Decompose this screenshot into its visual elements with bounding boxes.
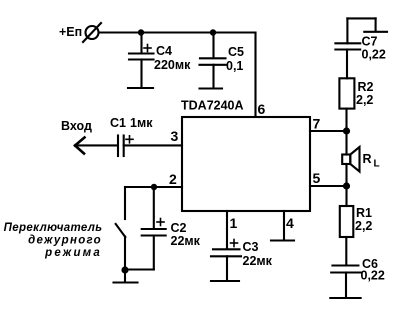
svg-text:C2: C2 [171, 221, 187, 235]
wire pin 3 [124, 144, 182, 146]
node switch/C2 bottom junction [121, 266, 128, 273]
svg-text:0,22: 0,22 [362, 48, 386, 62]
wire top supply rail [99, 31, 256, 33]
wire C2 bottom to switch junction [125, 268, 154, 270]
node pin5 / R1 / speaker junction [343, 182, 350, 189]
svg-text:3: 3 [171, 128, 179, 144]
svg-text:4: 4 [286, 215, 294, 231]
ground (C3) [211, 280, 239, 282]
svg-text:2: 2 [169, 171, 177, 187]
ground (C5) [200, 87, 223, 89]
IC U1 TDA7240A [181, 99, 310, 212]
capacitor C2 22мк [142, 187, 201, 270]
capacitor C7 0,22 [335, 18, 385, 61]
ground (switch) [114, 270, 138, 283]
svg-text:дежурного: дежурного [28, 235, 102, 247]
switch SA1 (standby) [116, 187, 126, 270]
wire speaker to pin5 junction [345, 164, 347, 186]
terminal X1 (+Еп) [83, 23, 101, 42]
capacitor C6 0,22 [331, 257, 385, 297]
svg-text:режима: режима [44, 247, 102, 259]
svg-text:R2: R2 [358, 80, 374, 94]
node junction rail/C5 [210, 29, 216, 35]
node pin2 / C2 / switch junction [151, 184, 157, 190]
resistor R1 2,2 [340, 206, 373, 237]
wire pin 1 [226, 211, 228, 249]
svg-text:Вход: Вход [61, 119, 92, 133]
capacitor C4 220мк [129, 33, 191, 88]
ground (C4) [128, 87, 153, 89]
svg-text:0,1: 0,1 [226, 59, 243, 73]
svg-text:L: L [374, 159, 380, 170]
capacitor C3 22мк [211, 240, 273, 281]
node junction rail/C4 [138, 29, 144, 35]
svg-text:1: 1 [230, 215, 238, 231]
wire pin 5 [310, 185, 347, 187]
wire pin 2 [125, 186, 182, 188]
svg-text:6: 6 [258, 101, 266, 117]
svg-text:2,2: 2,2 [356, 93, 373, 107]
svg-text:2,2: 2,2 [355, 219, 372, 233]
svg-text:TDA7240A: TDA7240A [181, 99, 244, 113]
speaker RL [342, 147, 379, 172]
svg-text:220мк: 220мк [154, 58, 191, 72]
wire pin 4 [283, 211, 285, 240]
svg-text:5: 5 [313, 170, 321, 186]
wire junction to R1 [345, 186, 347, 206]
svg-text:R: R [363, 152, 372, 166]
svg-text:C5: C5 [228, 45, 244, 59]
ground (pin 4) [271, 239, 294, 241]
svg-text:C3: C3 [243, 240, 259, 254]
wire R1 to C6 [345, 237, 347, 265]
svg-text:C4: C4 [156, 44, 172, 58]
svg-text:C1: C1 [110, 116, 126, 130]
wire pin 6 [254, 33, 256, 118]
capacitor C5 0,1 [200, 33, 245, 88]
svg-text:1мк: 1мк [130, 116, 153, 130]
svg-text:+Еп: +Еп [59, 25, 82, 39]
wire R2 to C7 [346, 50, 348, 79]
wire junction to R2 [345, 109, 347, 131]
wire junction to speaker [345, 131, 347, 155]
svg-text:22мк: 22мк [243, 254, 273, 268]
svg-text:C7: C7 [362, 35, 378, 49]
switch caption (3 italic lines) [4, 222, 103, 259]
node pin7 / R2 / speaker junction [343, 127, 350, 134]
arrow input [75, 138, 85, 154]
wire pin 7 [310, 130, 347, 132]
svg-text:7: 7 [313, 116, 321, 132]
capacitor C1 1мк [110, 116, 153, 156]
svg-text:22мк: 22мк [171, 234, 201, 248]
svg-text:0,22: 0,22 [361, 269, 385, 283]
svg-text:R1: R1 [356, 206, 372, 220]
ground (C6) [330, 297, 360, 299]
svg-text:Переключатель: Переключатель [4, 222, 103, 234]
ground (C7) [364, 31, 387, 33]
resistor R2 2,2 [339, 78, 373, 108]
wire input to C1 [76, 144, 118, 146]
